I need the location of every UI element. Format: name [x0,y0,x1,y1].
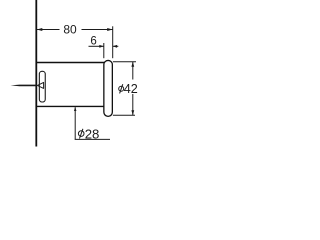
svg-text:42: 42 [124,82,138,96]
svg-text:6: 6 [90,36,96,48]
svg-text:28: 28 [85,126,100,141]
svg-text:80: 80 [63,22,77,36]
